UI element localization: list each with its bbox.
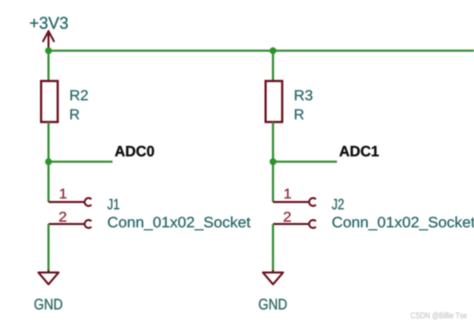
connector J2 pin 1 <box>273 198 316 206</box>
junction node ADC1 <box>270 158 277 165</box>
watermark <box>411 312 467 319</box>
resistor R3 value label R <box>295 109 304 119</box>
resistor R2 value label R <box>70 109 79 119</box>
wire: rail to R2 top <box>47 51 49 81</box>
resistor R3 reference label <box>295 90 312 100</box>
wire: +3V3 top rail <box>49 50 474 52</box>
connector J1 value label <box>108 216 251 230</box>
J2 pin 2 number <box>284 212 291 222</box>
J1 pin 2 number <box>59 212 66 222</box>
wire: node to ADC0 label <box>49 161 113 163</box>
GND text under J2 <box>259 299 287 310</box>
wire: rail to R3 top <box>272 51 274 81</box>
power +3V3 symbol arrow <box>43 31 54 51</box>
wire: J2 pin 2 down to GND <box>272 224 274 271</box>
ground symbol under J1 <box>38 270 58 284</box>
J1 pin 1 number <box>60 189 66 199</box>
resistor R2 body <box>41 81 58 122</box>
junction node ADC0 <box>45 158 52 165</box>
wire: R2 bottom to node ADC0 <box>47 122 49 162</box>
net label ADC0 <box>115 146 154 157</box>
connector J2 pin 2 <box>273 220 316 228</box>
net label ADC1 <box>339 146 378 157</box>
connector J1 reference label <box>107 199 119 209</box>
ground symbol under J2 <box>263 270 283 284</box>
wire: node down to J1 pin 1 <box>47 162 49 202</box>
junction A (col1 on rail) <box>45 47 52 54</box>
resistor R3 body <box>266 81 283 122</box>
wire: node down to J2 pin 1 <box>272 162 274 202</box>
power +3V3 label <box>30 17 68 29</box>
resistor R2 reference label <box>71 90 88 100</box>
connector J1 pin 2 <box>49 220 92 228</box>
wire: node to ADC1 label <box>273 161 337 163</box>
GND text under J1 <box>34 299 62 310</box>
wire: J1 pin 2 down to GND <box>47 224 49 271</box>
connector J1 pin 1 <box>49 198 92 206</box>
connector J2 reference label <box>332 199 344 210</box>
connector J2 value label <box>332 216 474 230</box>
J2 pin 1 number <box>285 189 291 199</box>
wire: R3 bottom to node ADC1 <box>272 122 274 162</box>
junction B (col2 on rail) <box>270 47 277 54</box>
